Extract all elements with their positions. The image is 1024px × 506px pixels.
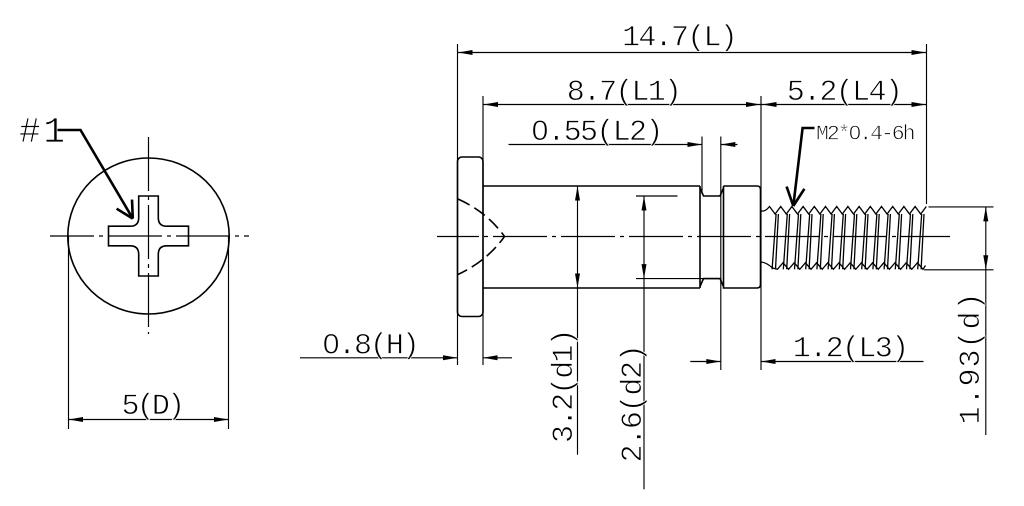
- thread crest zigzag (top): [761, 207, 926, 215]
- svg-text:3.2(d1): 3.2(d1): [548, 329, 582, 444]
- extension line, head left face / L / H: [457, 44, 459, 365]
- extension ticks for 2.6(d2): [636, 195, 678, 197]
- svg-text:M2*0.4-6h: M2*0.4-6h: [816, 123, 916, 147]
- svg-text:0.8(H): 0.8(H): [322, 330, 420, 364]
- shoulder body (d1): [483, 186, 700, 288]
- groove (undercut, d2) with chamfers: [700, 188, 724, 287]
- hidden line: phillips recess depth curve: [458, 199, 505, 275]
- extension ticks for 1.93(d): [929, 206, 994, 208]
- dimension 2.6(d2): [643, 196, 645, 489]
- dimension 1.93(d): [985, 207, 987, 435]
- right view horizontal centerline: [437, 236, 950, 238]
- extension line, head right face / L1 / H: [482, 96, 484, 365]
- left view horizontal centerline: [50, 235, 249, 237]
- dimension 5(D): [69, 419, 229, 421]
- extension line, groove left / L2: [701, 137, 703, 195]
- dimension 5.2(L4): [761, 104, 927, 106]
- screw head outline (plan view circle): [68, 158, 229, 314]
- svg-text:5(D): 5(D): [122, 390, 186, 424]
- svg-text:1.93(d): 1.93(d): [955, 293, 989, 425]
- collar (L3): [724, 186, 761, 288]
- dimension 0.55(L2): [509, 144, 703, 146]
- thread crest zigzag (bottom): [761, 262, 926, 269]
- dimension 14.7(L): [458, 52, 927, 54]
- svg-text:0.55(L2): 0.55(L2): [531, 116, 663, 150]
- screw head (side view): [458, 157, 484, 317]
- svg-text:#1: #1: [19, 112, 65, 153]
- leader #1 pointing to phillips recess: [57, 130, 133, 219]
- extension line, thread start / L1 L4 L3: [760, 96, 762, 370]
- extension line, L right end: [926, 44, 928, 204]
- svg-text:8.7(L1): 8.7(L1): [567, 76, 682, 110]
- extension lines for 5(D): [68, 236, 70, 429]
- svg-text:1.2(L3): 1.2(L3): [793, 333, 909, 367]
- svg-text:2.6(d2): 2.6(d2): [617, 344, 651, 462]
- phillips recess cross outline: [109, 196, 189, 276]
- dimension 3.2(d1): [577, 186, 579, 455]
- dimension 8.7(L1): [483, 104, 761, 106]
- thread flank lines: [772, 214, 924, 269]
- leader for thread callout M2*0.4-6h: [787, 128, 815, 206]
- svg-text:14.7(L): 14.7(L): [622, 22, 738, 56]
- extension line, groove right / L2 L3: [720, 137, 722, 371]
- dimension 0.8(H): [300, 357, 458, 359]
- svg-text:5.2(L4): 5.2(L4): [787, 76, 903, 110]
- dimension 1.2(L3): [690, 361, 721, 363]
- left view vertical centerline: [148, 137, 150, 334]
